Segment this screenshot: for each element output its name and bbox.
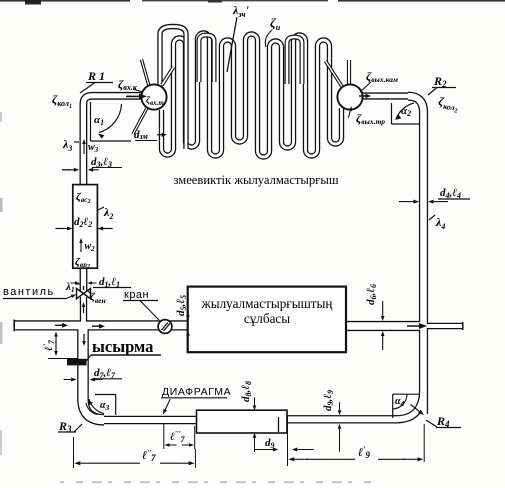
scan noise top edge — [0, 0, 505, 5]
diaphragm chamber (wide pipe section) — [197, 410, 288, 433]
label d3,l3 with dim arrows — [62, 156, 122, 172]
bend R1 label — [80, 69, 113, 93]
label d4,l4 with underline and dim arrows — [399, 187, 470, 204]
svg-text:сұлбасы: сұлбасы — [244, 311, 290, 326]
dimension l7triple — [164, 424, 195, 449]
label d2,l2 with dim arrows — [56, 216, 113, 231]
label zeta_vyx.kam with pointer — [360, 69, 398, 92]
bend R2 label — [428, 74, 456, 95]
coil caption text — [173, 173, 338, 187]
label d9 with dim arrows — [254, 437, 313, 452]
svg-text:кран: кран — [124, 289, 149, 301]
svg-text:ДИАФРАГМА: ДИАФРАГМА — [162, 386, 231, 398]
dimension l7prime rotated — [42, 332, 78, 359]
flow arrow cross pipe 2 — [92, 324, 105, 329]
label zeta_vs2 — [76, 191, 90, 205]
coil overlap arch A — [199, 35, 214, 82]
label d6l6 rotated with dim arrows — [365, 284, 385, 350]
svg-text:ысырма: ысырма — [92, 337, 153, 356]
label d5l5 rotated with dim arrows — [175, 295, 190, 344]
tap (кран) circle symbol — [158, 320, 172, 334]
flow arrow w3 — [82, 139, 98, 154]
svg-text:вантиль: вантиль — [3, 286, 55, 298]
flow arrow out of right node — [359, 94, 371, 98]
label d_zm with dimension arrow — [134, 129, 167, 141]
bend R4 label — [426, 414, 461, 429]
label zeta_u with pointer — [265, 15, 280, 47]
flow arrow down below junction — [82, 334, 86, 346]
gate valve ысырма (black slab) — [67, 359, 87, 366]
wire main pipe network white interiors — [15, 96, 463, 420]
angle alpha2 box — [392, 103, 420, 124]
pipe open end caps — [14, 320, 463, 332]
coil overlap arch B — [287, 37, 302, 84]
flow arrow right junction — [407, 323, 427, 329]
heat exchanger scheme box — [188, 287, 346, 353]
coil first tall arch — [160, 27, 186, 150]
dimension l9prime — [288, 417, 425, 466]
label d1,l1 with underline and dim arrows — [71, 276, 132, 289]
bend R3 label — [58, 419, 82, 434]
label zeta_kol1 — [52, 92, 72, 110]
mixing chamber node U2 (coil outlet) — [337, 84, 362, 109]
angle alpha4 box — [393, 394, 424, 418]
label zeta_vyx.tr with pointer arrow — [348, 106, 385, 126]
angle alpha1 box — [91, 102, 132, 141]
label lambda_zch with pointer — [227, 3, 250, 72]
wire main pipe network black pass — [15, 96, 463, 420]
scan noise bottom edge — [60, 481, 371, 483]
label d8,l8 rotated with vertical dim — [240, 381, 256, 452]
left node thermometer spokes — [142, 60, 150, 87]
flow arrow into left node — [126, 94, 147, 100]
right node thermometer spokes — [326, 61, 344, 88]
pipe section d2 (left enlarged tube) — [73, 185, 98, 269]
label d9,l9 rotated with vertical dim — [322, 390, 341, 452]
label zeta_kol2 — [437, 94, 459, 115]
svg-text:жылуалмастырғыштың: жылуалмастырғыштың — [201, 296, 333, 311]
angle alpha3 box with arcs — [86, 395, 116, 416]
dimension l7double — [74, 437, 196, 468]
svg-text:змеевиктік жылуалмастырғыш: змеевиктік жылуалмастырғыш — [173, 173, 338, 187]
label lambda2 — [98, 205, 113, 221]
label вантиль with underline and arrow — [3, 286, 76, 299]
mixing chamber node U1 (coil inlet) — [141, 84, 166, 109]
label кран with underline and pointer — [123, 289, 159, 320]
label lambda3 — [62, 137, 79, 153]
svg-text:R 1: R 1 — [87, 69, 105, 83]
label ысырма bold with underline and pointer — [86, 337, 161, 361]
coil heat exchanger serpentine tube — [162, 33, 342, 157]
label zeta_vr2 — [75, 256, 90, 270]
flow arrow up toward valve — [82, 302, 86, 313]
valve V1 вантиль bowtie — [77, 286, 91, 299]
label d7,l7 with underline and dim arrows — [64, 367, 122, 382]
label диафрагма with underline and arrow — [161, 386, 231, 415]
scan noise left edge — [0, 112, 3, 455]
label lambda4 with tick — [429, 215, 445, 231]
label lambda1 — [65, 281, 80, 294]
flow arrow cross pipe 1 — [55, 323, 68, 328]
label zeta_ven — [88, 291, 106, 305]
flow arrow w2 — [79, 238, 95, 253]
label zeta_vx.k — [118, 77, 143, 92]
